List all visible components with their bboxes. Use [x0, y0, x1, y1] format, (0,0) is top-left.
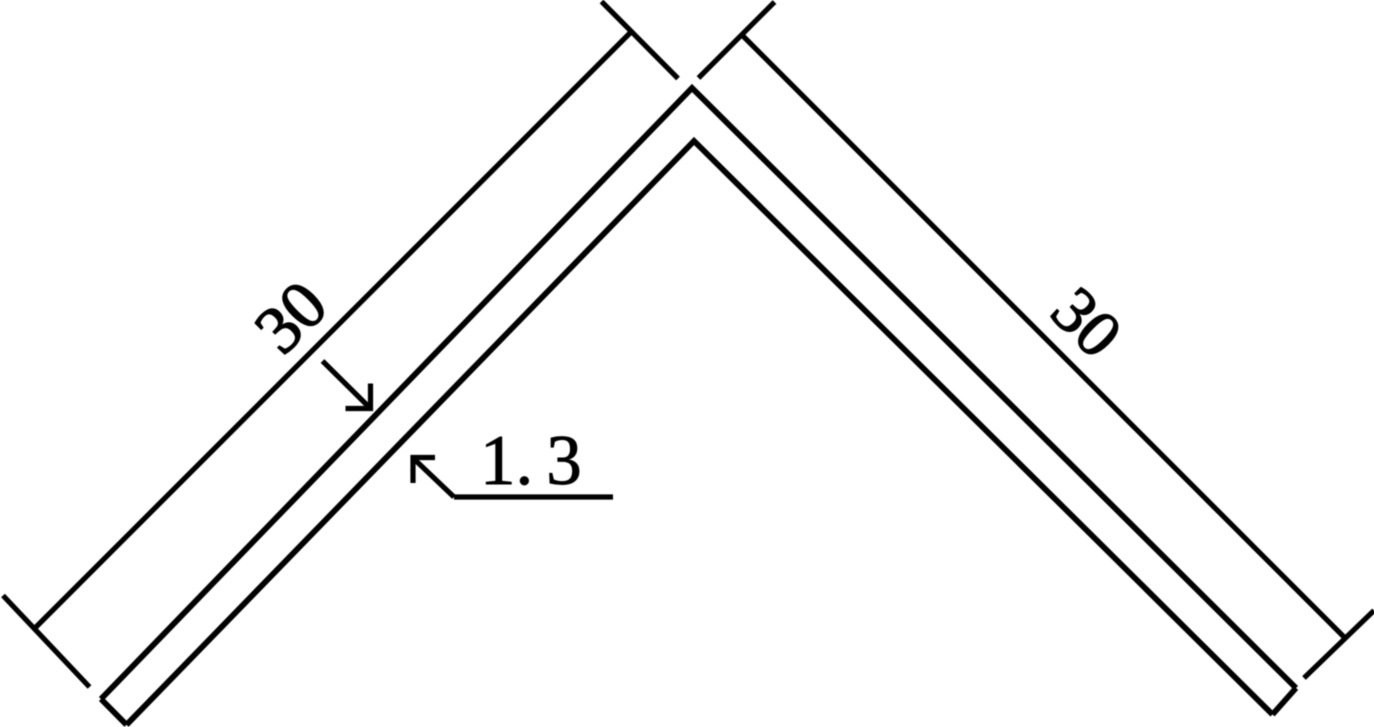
- 1.3 leader underline: [454, 494, 613, 499]
- left 30 leader arrowhead: [346, 384, 371, 409]
- left extension line at leg end: [3, 596, 90, 688]
- left 30 leader arrow shaft: [323, 361, 371, 409]
- left extension line at apex: [602, 2, 679, 79]
- svg-text:1.3: 1.3: [480, 422, 582, 500]
- 1.3 leader shaft: [413, 458, 454, 497]
- inner profile edge (angle section, inner surface): [127, 141, 1273, 725]
- right extension line at leg end: [1304, 611, 1374, 679]
- left dimension line (30): [36, 33, 631, 628]
- right extension line at apex: [699, 2, 775, 78]
- outer profile edge (angle section, outer surface): [101, 88, 1296, 699]
- right leg end cap: [1273, 688, 1297, 715]
- right dimension line (30): [742, 35, 1344, 637]
- left leg end cap: [101, 699, 127, 725]
- 1.3 leader arrowhead: [413, 458, 435, 484]
